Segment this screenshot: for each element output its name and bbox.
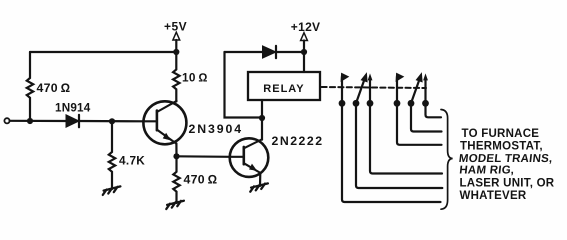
wire: Q2 emitter to ground — [259, 173, 261, 186]
svg-text:HAM RIG,: HAM RIG, — [459, 165, 515, 177]
diode D1 1N914 — [66, 115, 79, 127]
svg-text:2N2222: 2N2222 — [272, 134, 324, 148]
contact S1a fixed post with flag — [341, 73, 349, 103]
wire: top rail from R1 to +5V node — [30, 51, 176, 53]
contact S2a fixed post with flag — [396, 73, 404, 103]
ground: under R4 — [166, 201, 184, 209]
wire: diode cathode to Q1 base — [79, 120, 144, 123]
node: junction D1/R2 — [109, 118, 115, 124]
power +5V arrow — [173, 32, 180, 52]
contact S2 movable arm — [411, 73, 422, 103]
wire: mechanical link (dashed) — [322, 87, 427, 88]
wire: node to Q2 base — [177, 155, 230, 158]
resistor R2 4.7K — [109, 121, 115, 189]
wire: terminal 2 to brace — [356, 103, 442, 188]
svg-text:1N914: 1N914 — [55, 101, 91, 114]
svg-text:THERMOSTAT,: THERMOSTAT, — [460, 140, 543, 152]
contact S1b fixed post — [368, 75, 372, 104]
node: relay/collector junction — [259, 115, 265, 121]
svg-text:+5V: +5V — [164, 20, 187, 34]
wire: terminal 5 to brace — [411, 103, 442, 131]
node: junction input/R1 — [27, 118, 33, 124]
node: contact terminal 6 — [422, 100, 429, 107]
wire: flyback left leg — [225, 52, 263, 118]
contact S1 movable arm — [356, 73, 367, 103]
ground: under Q2 — [250, 183, 268, 191]
node: +12V junction — [301, 49, 307, 55]
wire: Q1 emitter to node — [175, 143, 177, 156]
wire: flyback top left — [225, 51, 263, 53]
wire: +12V node to relay top — [303, 52, 305, 72]
power +12V arrow — [301, 33, 308, 52]
node: +5V junction — [173, 49, 179, 55]
resistor R4 470ohm — [173, 156, 179, 203]
node: contact terminal 3 — [367, 100, 374, 107]
svg-text:+12V: +12V — [291, 20, 321, 34]
wire: terminal 6 to brace — [426, 103, 442, 117]
label TO FURNACE text block — [458, 128, 555, 202]
transistor Q1 2N3904 — [143, 101, 186, 144]
input terminal — [4, 118, 9, 123]
svg-text:LASER UNIT, OR: LASER UNIT, OR — [460, 177, 555, 189]
node: contact terminal 5 — [408, 100, 415, 107]
svg-text:470 Ω: 470 Ω — [37, 81, 71, 95]
svg-text:TO FURNACE: TO FURNACE — [462, 128, 540, 140]
node: emitter junction — [173, 153, 179, 159]
resistor R3 10ohm — [173, 52, 179, 102]
transistor Q2 2N2222 — [230, 138, 269, 177]
contact S2b fixed post — [424, 75, 428, 104]
svg-text:4.7K: 4.7K — [119, 154, 145, 168]
diode D2 flyback — [263, 46, 277, 58]
brace — [441, 110, 453, 210]
svg-text:10 Ω: 10 Ω — [182, 71, 208, 85]
wire: input to diode anode — [10, 120, 66, 122]
node: contact terminal 1 — [339, 100, 346, 107]
node: contact terminal 4 — [394, 100, 401, 107]
wire: relay bottom to node — [261, 100, 263, 118]
svg-text:470 Ω: 470 Ω — [184, 172, 218, 186]
wire: terminal 4 to brace — [397, 103, 442, 145]
ground: under R2 — [103, 186, 121, 195]
svg-text:MODEL TRAINS,: MODEL TRAINS, — [458, 153, 553, 165]
svg-text:2N3904: 2N3904 — [189, 122, 243, 136]
resistor R1 470ohm — [27, 52, 33, 121]
wire: Q2 collector — [261, 118, 263, 140]
relay K1 box — [248, 72, 320, 100]
wire: terminal 1 to brace — [342, 103, 441, 202]
node: contact terminal 2 — [353, 100, 360, 107]
svg-text:RELAY: RELAY — [263, 83, 304, 95]
wire: terminal 3 to brace — [370, 103, 442, 173]
svg-text:WHATEVER: WHATEVER — [460, 190, 527, 202]
wire: D2 cathode to +12V node — [276, 51, 304, 53]
